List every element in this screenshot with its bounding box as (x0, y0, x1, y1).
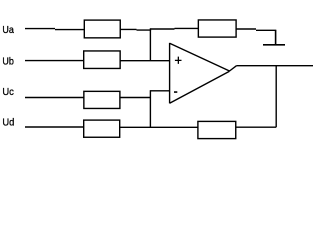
wire Ud input (25, 126, 84, 128)
node Ub label (2, 56, 14, 68)
wire + node to R5 (150, 27, 198, 30)
op-amp + input marking (175, 57, 182, 64)
wire R6 to output vertical (236, 126, 276, 128)
svg-text:Ub: Ub (2, 56, 14, 68)
wire op-amp output (230, 66, 314, 71)
node Ud label (2, 116, 14, 128)
wire Ua input (25, 29, 84, 30)
ground (263, 30, 285, 45)
wire R3 to - node (120, 97, 150, 99)
node Uc label (2, 86, 14, 98)
wire - node to op-amp inverting input (150, 90, 169, 92)
resistor R3 (84, 91, 120, 108)
resistor R4 (84, 120, 120, 137)
op-amp U1 triangle (170, 43, 230, 104)
resistor R6 (feedback) (198, 121, 236, 138)
wire Ub input (25, 60, 84, 62)
wire vertical bus of + node (149, 28, 151, 61)
node Ua label (2, 24, 14, 36)
svg-text:Ud: Ud (2, 116, 14, 128)
svg-text:Ua: Ua (2, 24, 14, 36)
wire Uc input (25, 97, 84, 99)
resistor R5 (grounding resistor) (198, 20, 236, 37)
wire feedback vertical from output (275, 66, 277, 128)
wire R1 to + node (120, 28, 151, 31)
svg-text:Uc: Uc (2, 86, 14, 98)
wire vertical bus of - node (149, 90, 151, 127)
resistor R2 (84, 51, 120, 68)
wire R5 to ground (236, 29, 276, 30)
wire R2 to op-amp non-inverting input (120, 60, 169, 62)
resistor R1 (84, 20, 120, 38)
op-amp - input marking (174, 91, 177, 93)
wire Ud row to R6 (120, 126, 198, 128)
